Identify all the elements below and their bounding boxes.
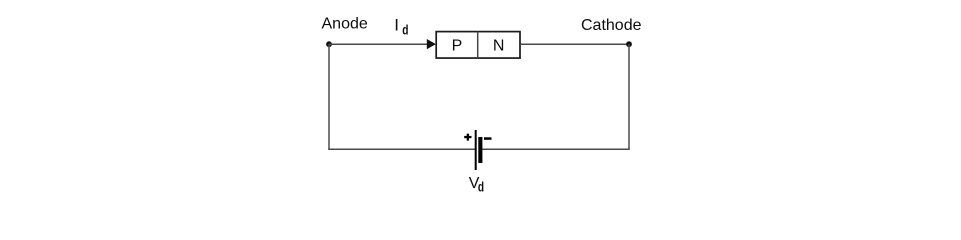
wire anode to diode (horizontal): [329, 43, 428, 45]
svg-text:Cathode: Cathode: [581, 17, 642, 34]
battery plus sign: [464, 134, 471, 141]
svg-text:Anode: Anode: [322, 16, 368, 33]
diode D1 PN-junction box: [436, 32, 520, 58]
svg-text:P: P: [452, 37, 463, 54]
node A (anode junction dot): [326, 41, 332, 47]
wire right vertical (cathode down): [628, 44, 630, 150]
current label Id: [394, 16, 408, 38]
svg-text:I: I: [394, 16, 399, 35]
wire diode to cathode (horizontal): [521, 43, 629, 45]
battery V_d positive plate (long thin): [475, 130, 477, 170]
label Vd: [469, 175, 484, 195]
battery V_d negative plate (short thick): [478, 137, 482, 163]
arrowhead (current direction): [427, 39, 436, 49]
wire bottom left (to battery +): [328, 148, 475, 150]
battery minus sign: [484, 137, 492, 140]
svg-text:d: d: [478, 178, 484, 194]
wire left vertical (anode down): [328, 44, 330, 150]
node K (cathode junction dot): [626, 41, 632, 47]
svg-text:d: d: [402, 22, 408, 38]
diode junction divider: [477, 32, 479, 58]
wire bottom right (battery - to cathode): [482, 148, 630, 150]
svg-text:N: N: [493, 37, 505, 54]
